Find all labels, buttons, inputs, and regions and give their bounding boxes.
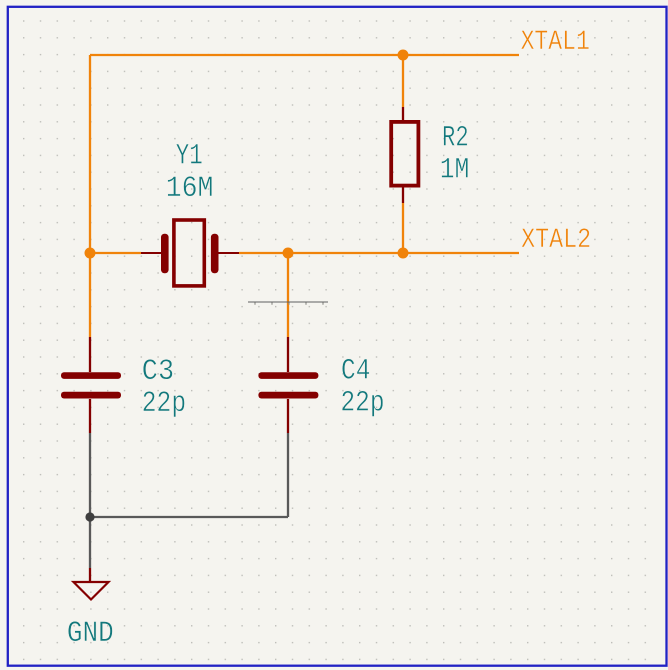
junction B left	[85, 248, 96, 259]
svg-text:22p: 22p	[341, 387, 385, 421]
svg-text:22p: 22p	[142, 387, 186, 421]
svg-text:XTAL2: XTAL2	[521, 225, 591, 256]
junction D right	[398, 248, 409, 259]
capacitor C3	[61, 337, 121, 433]
junction A top	[398, 50, 409, 61]
svg-text:R2: R2	[442, 122, 469, 156]
wire XTAL1 top horizontal	[90, 54, 519, 56]
wire grey C3 to junction	[89, 433, 91, 568]
svg-text:1M: 1M	[440, 153, 470, 187]
junction C middle	[283, 248, 294, 259]
crystal Y1	[141, 220, 239, 286]
svg-text:16M: 16M	[166, 172, 214, 206]
wire grey C4 down	[287, 433, 289, 517]
graphic line	[248, 301, 328, 303]
svg-text:C3: C3	[142, 355, 174, 389]
wire R2 top	[402, 55, 404, 107]
wire XTAL2 horizontal	[239, 252, 519, 254]
wire grey horizontal	[90, 516, 288, 518]
svg-text:Y1: Y1	[176, 140, 203, 174]
capacitor C4	[258, 337, 318, 433]
wire C4 top	[287, 253, 289, 337]
svg-text:XTAL1: XTAL1	[521, 27, 590, 58]
wire left vertical	[89, 55, 91, 337]
svg-text:C4: C4	[341, 354, 370, 388]
ground	[74, 568, 109, 600]
wire crystal left	[90, 252, 141, 254]
wire R2 bottom	[402, 203, 404, 253]
svg-text:GND: GND	[67, 617, 114, 651]
resistor R2	[391, 107, 418, 203]
junction E ground	[85, 512, 94, 521]
